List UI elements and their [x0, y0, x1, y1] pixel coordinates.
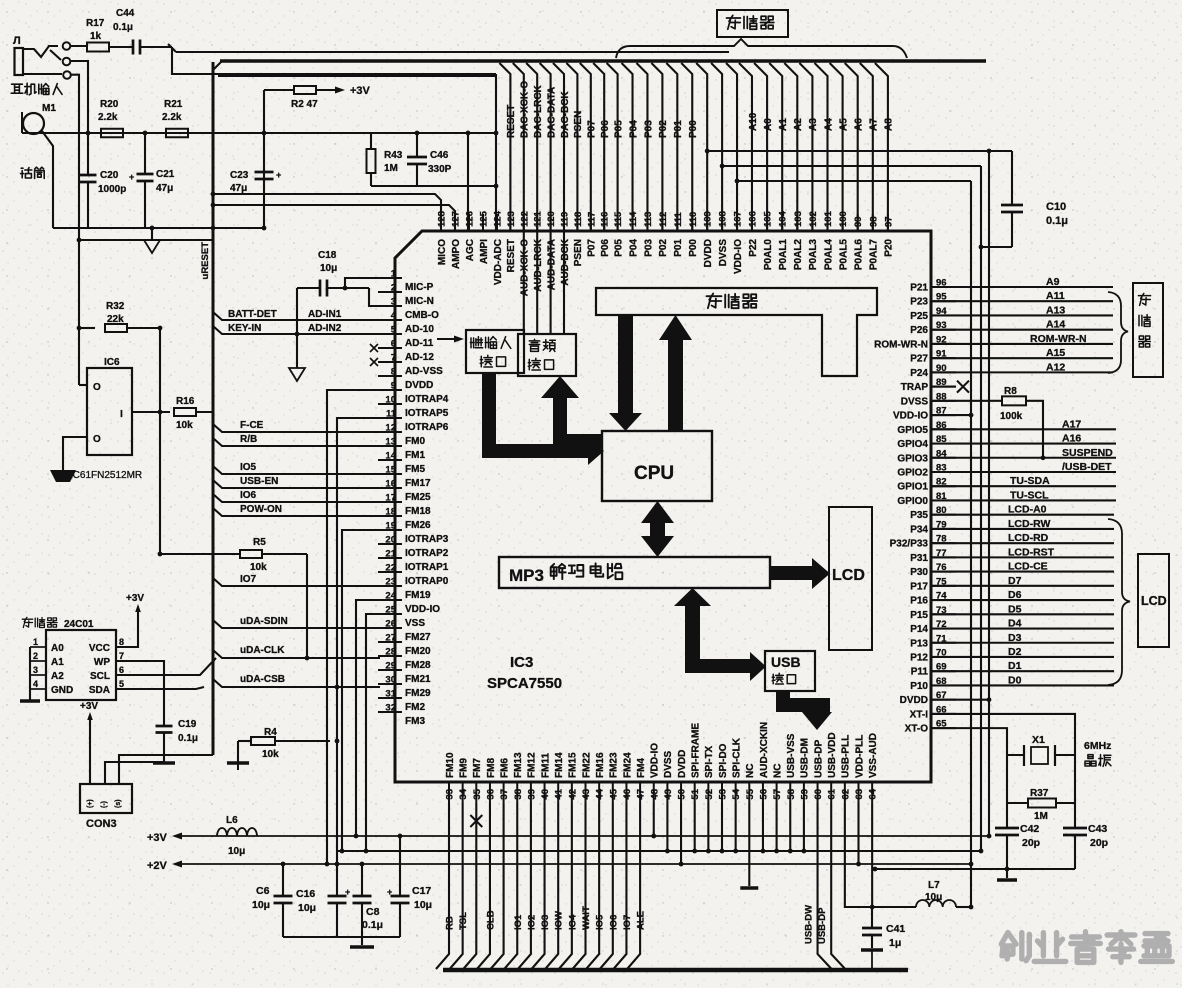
IC3 bottom pin stubs 33-64: [449, 782, 872, 803]
svg-text:D0: D0: [1008, 674, 1022, 686]
svg-text:50: 50: [677, 789, 688, 800]
svg-text:C44: C44: [116, 8, 135, 19]
XT-O row to crystal left: [931, 728, 1007, 755]
svg-text:(s): (s): [115, 799, 122, 808]
svg-text:46: 46: [622, 789, 633, 800]
svg-text:A2: A2: [793, 118, 804, 131]
svg-text:IO7: IO7: [240, 574, 257, 585]
svg-text:R2 47: R2 47: [291, 99, 318, 110]
thick elbow USB box to USB pins: [776, 691, 790, 712]
svg-text:1M: 1M: [384, 163, 398, 174]
wire IO7 row pin23: [213, 578, 380, 586]
wire AGC pin column: [467, 133, 469, 231]
svg-text:KEY-IN: KEY-IN: [228, 323, 261, 334]
svg-text:AD-10: AD-10: [405, 324, 434, 335]
AD-11 arrow into key-input box: [437, 338, 458, 340]
wire mic to VDD-ADC pin column: [495, 74, 497, 231]
svg-text:VDD-IO: VDD-IO: [650, 743, 661, 778]
svg-text:TU-SCL: TU-SCL: [1010, 489, 1049, 501]
svg-text:IOTRAP0: IOTRAP0: [405, 576, 449, 587]
svg-text:MIC-P: MIC-P: [405, 282, 434, 293]
svg-text:17: 17: [385, 493, 396, 504]
svg-text:P17: P17: [910, 581, 928, 592]
fan wires top pins 106-97 (memory address bus): [739, 63, 888, 231]
svg-text:CLB: CLB: [485, 910, 496, 930]
svg-text:100k: 100k: [1000, 411, 1023, 422]
svg-text:9: 9: [391, 381, 396, 392]
svg-text:VDD-IO: VDD-IO: [733, 239, 744, 274]
svg-text:30: 30: [385, 675, 396, 686]
mic lower lead to ground: [42, 131, 53, 228]
resistor R17 1k: [70, 45, 87, 47]
svg-text:P14: P14: [910, 624, 928, 635]
svg-text:4: 4: [391, 311, 397, 322]
svg-text:FM1: FM1: [405, 450, 425, 461]
svg-text:P16: P16: [910, 596, 928, 607]
wire uDA-SDIN row pin26: [213, 620, 380, 628]
svg-text:58: 58: [786, 789, 797, 800]
IC3 top pin names: [437, 238, 895, 296]
svg-text:P0AL0: P0AL0: [763, 239, 774, 271]
svg-text:10k: 10k: [250, 562, 267, 573]
svg-text:0.1μ: 0.1μ: [362, 919, 383, 931]
bottom thick bus: [443, 968, 908, 973]
svg-text:NC: NC: [745, 764, 756, 778]
bus corner diagonal: [213, 62, 221, 70]
IC3 right pin numbers 96-65: [936, 278, 947, 730]
resistor R4 10k: [238, 740, 252, 742]
svg-text:FM15: FM15: [568, 752, 579, 778]
VSS-AUD wire to C41 node: [871, 803, 873, 907]
svg-text:A0: A0: [763, 118, 774, 131]
svg-text:CON3: CON3: [86, 818, 117, 830]
svg-text:1: 1: [391, 269, 397, 280]
wire uDA-CLK row pin28: [213, 650, 380, 658]
capacitor C16 10u: [328, 895, 347, 898]
svg-text:P25: P25: [910, 311, 928, 322]
left long column pin19: [342, 530, 380, 851]
thick double arrow CPU-MP3: [650, 520, 665, 540]
wire USB-EN row pin16: [213, 480, 380, 488]
svg-text:C23: C23: [230, 170, 249, 181]
IC3 left pin numbers 1-32: [385, 269, 396, 714]
+3V supply rail: [178, 835, 989, 837]
svg-text:5: 5: [119, 679, 124, 689]
svg-text:42: 42: [567, 789, 578, 800]
R5 column down to uDA-CLK: [306, 554, 308, 658]
svg-text:SPI-TX: SPI-TX: [704, 745, 715, 778]
thick arrow memory-to-CPU (down): [618, 314, 633, 415]
crystal left vertical: [1006, 755, 1008, 828]
svg-text:126: 126: [465, 211, 476, 227]
internal block: LCD box: [829, 507, 872, 650]
svg-text:SPCA7550: SPCA7550: [487, 675, 562, 692]
svg-text:25: 25: [385, 605, 396, 616]
svg-text:POW-ON: POW-ON: [240, 504, 282, 515]
resistor R32 22k: [79, 327, 95, 329]
analog ground row top-left: [53, 227, 264, 229]
svg-text:DVSS: DVSS: [718, 239, 729, 267]
svg-text:P0AL2: P0AL2: [793, 239, 804, 271]
svg-text:IO3: IO3: [540, 915, 551, 930]
svg-text:VDD-IO: VDD-IO: [405, 604, 440, 615]
svg-text:32: 32: [385, 703, 396, 714]
EEPROM 24C01: [46, 630, 116, 700]
svg-text:27: 27: [385, 633, 396, 644]
svg-text:A12: A12: [1046, 361, 1065, 373]
internal block: USB interface box: [765, 651, 815, 691]
svg-text:+2V: +2V: [147, 860, 168, 872]
LCD signal rows: [931, 504, 1114, 687]
svg-text:R17: R17: [86, 18, 105, 29]
svg-text:R4: R4: [264, 727, 277, 738]
connector CON3: [80, 784, 132, 813]
IC3 left pin stubs 1-32: [378, 278, 402, 712]
C42 ground: [1005, 867, 1010, 872]
capacitor C19 0.1u: [156, 725, 173, 728]
svg-text:P0AL3: P0AL3: [808, 239, 819, 271]
svg-text:IO6: IO6: [240, 490, 257, 501]
svg-text:P04: P04: [628, 120, 639, 138]
svg-text:USB-DW: USB-DW: [804, 905, 815, 944]
svg-text:C16: C16: [296, 888, 315, 900]
capacitor C6 10u: [282, 864, 284, 896]
svg-text:P22: P22: [748, 239, 759, 257]
svg-text:124: 124: [493, 210, 504, 227]
svg-text:47μ: 47μ: [156, 183, 173, 194]
right vertical DVSS rail: [980, 166, 982, 851]
IC6 top O pin wire: [79, 384, 87, 386]
svg-text:6: 6: [391, 339, 396, 350]
power rail DVSS to right: [722, 165, 981, 167]
wire POW-ON row pin18: [213, 508, 380, 516]
svg-text:USB: USB: [771, 654, 801, 670]
svg-text:P01: P01: [673, 239, 684, 257]
svg-text:O: O: [93, 434, 101, 445]
svg-text:LCD: LCD: [1141, 594, 1167, 608]
svg-text:AD-12: AD-12: [405, 352, 434, 363]
svg-text:2.2k: 2.2k: [162, 112, 182, 123]
svg-text:34: 34: [458, 788, 469, 799]
svg-text:DVDD: DVDD: [703, 239, 714, 267]
svg-text:FM6: FM6: [499, 758, 510, 778]
svg-text:0.1μ: 0.1μ: [1046, 215, 1068, 227]
internal block: memory bar (cun-chu-qi): [596, 288, 877, 376]
svg-text:10μ: 10μ: [252, 899, 270, 911]
svg-text:DAC-LRCK: DAC-LRCK: [533, 84, 544, 138]
microphone M1: [23, 113, 44, 134]
resistor R5 10k: [160, 553, 240, 555]
svg-text:PSEN: PSEN: [573, 111, 584, 138]
svg-text:FM14: FM14: [554, 752, 565, 778]
svg-text:A5: A5: [838, 118, 849, 131]
svg-text:L6: L6: [226, 815, 238, 826]
svg-text:D6: D6: [1008, 589, 1022, 601]
capacitor C23 47u: [255, 171, 274, 174]
svg-text:LCD-A0: LCD-A0: [1008, 504, 1047, 516]
svg-text:FM27: FM27: [405, 632, 431, 643]
svg-text:16: 16: [385, 479, 396, 490]
svg-text:IO5: IO5: [595, 914, 606, 930]
svg-text:4: 4: [33, 679, 38, 689]
thick arrow CPU to audio interface: [553, 434, 567, 448]
svg-text:15: 15: [385, 465, 396, 476]
svg-text:39: 39: [526, 789, 537, 800]
svg-text:IO7: IO7: [622, 915, 633, 930]
CON3 pin2 wire to C19 ground row: [105, 762, 164, 784]
svg-text:DVSS: DVSS: [663, 750, 674, 778]
svg-text:XT-I: XT-I: [910, 709, 929, 720]
svg-text:USB-DM: USB-DM: [800, 738, 811, 778]
top bus thick line: [220, 59, 986, 62]
svg-text:P02: P02: [658, 239, 669, 257]
svg-text:D4: D4: [1008, 618, 1022, 630]
svg-text:P00: P00: [688, 120, 699, 138]
svg-text:P0AL4: P0AL4: [823, 239, 834, 271]
svg-text:P26: P26: [910, 325, 928, 336]
svg-text:A2: A2: [51, 671, 64, 682]
24C01 SDA wire joins uDA-CSB: [116, 687, 204, 689]
watermark: [1001, 932, 1172, 963]
crystal X1 6MHz: [1007, 754, 1024, 756]
CON3 pin3 wire to trunk bottom: [119, 755, 213, 784]
svg-text:IO6: IO6: [608, 915, 619, 930]
svg-text:57: 57: [772, 789, 783, 800]
svg-text:60: 60: [813, 789, 824, 800]
svg-text:13: 13: [385, 437, 396, 448]
bottom power pin terminations: [653, 803, 655, 836]
svg-text:WAIT: WAIT: [581, 906, 592, 930]
svg-text:DVDD: DVDD: [677, 750, 688, 778]
svg-text:TRAP: TRAP: [901, 382, 929, 393]
svg-text:40: 40: [540, 789, 551, 800]
svg-text:2.2k: 2.2k: [98, 112, 118, 123]
svg-text:41: 41: [554, 788, 565, 799]
svg-text:IO4: IO4: [567, 914, 578, 930]
svg-text:uDA-SDIN: uDA-SDIN: [240, 616, 288, 627]
svg-text:P27: P27: [910, 354, 928, 365]
ground arrow under mic row: [151, 228, 153, 240]
svg-text:C43: C43: [1088, 823, 1107, 835]
GPIO rows with net names: [931, 418, 1116, 501]
svg-text:MIC-N: MIC-N: [405, 296, 434, 307]
IC6 output I pin wire / R16 10k: [132, 411, 170, 413]
wire KEY-IN / AD-IN2 row pin5: [213, 326, 380, 334]
svg-text:D2: D2: [1008, 646, 1022, 658]
svg-text:59: 59: [799, 789, 810, 800]
wire IO6 row pin17: [213, 494, 380, 502]
svg-text:P00: P00: [688, 239, 699, 257]
svg-text:P21: P21: [910, 283, 928, 294]
svg-text:P31: P31: [910, 553, 928, 564]
svg-text:44: 44: [595, 788, 606, 799]
svg-text:6: 6: [119, 665, 124, 675]
capacitor C17 10u: [399, 836, 401, 896]
svg-text:D1: D1: [1008, 660, 1022, 672]
svg-text:330P: 330P: [428, 164, 452, 175]
svg-text:AGC: AGC: [465, 239, 476, 261]
left long column pin9: [327, 390, 380, 864]
mic signal row: [22, 132, 496, 134]
bottom pin wires to bus: [436, 803, 640, 969]
svg-text:GPIO3: GPIO3: [897, 453, 928, 464]
svg-text:56: 56: [758, 789, 769, 800]
svg-text:23: 23: [385, 577, 396, 588]
svg-text:61: 61: [827, 788, 838, 799]
svg-text:IOW: IOW: [554, 911, 565, 930]
svg-text:LCD-RD: LCD-RD: [1008, 532, 1049, 544]
DVDD row 67: [931, 699, 989, 701]
svg-text:DVSS: DVSS: [901, 396, 929, 407]
svg-text:C42: C42: [1020, 823, 1039, 835]
svg-text:FM5: FM5: [405, 464, 425, 475]
svg-text:19: 19: [385, 521, 396, 532]
svg-text:LCD-RW: LCD-RW: [1008, 518, 1050, 530]
svg-text:0.1μ: 0.1μ: [178, 733, 198, 744]
svg-text:LCD-CE: LCD-CE: [1008, 561, 1048, 573]
svg-text:5: 5: [391, 325, 397, 336]
svg-text:M1: M1: [42, 103, 56, 114]
svg-text:FM25: FM25: [405, 492, 431, 503]
svg-text:P34: P34: [910, 524, 928, 535]
svg-text:A14: A14: [1046, 319, 1065, 331]
capacitor C43 20p: [1063, 827, 1087, 830]
svg-text:FM10: FM10: [445, 752, 456, 778]
wires P21-P24 to memory: [931, 287, 1113, 372]
R43 C46 AGC network box: [371, 185, 496, 187]
svg-text:1: 1: [33, 637, 38, 647]
svg-text:+: +: [276, 170, 281, 180]
memory address net labels: [1030, 276, 1087, 373]
svg-text:45: 45: [608, 788, 619, 799]
external LCD box: [1138, 554, 1169, 647]
LCD data bundle brace: [1108, 519, 1130, 685]
svg-text:8: 8: [391, 367, 396, 378]
svg-text:+3V: +3V: [147, 832, 168, 844]
capacitor C18 10u: [297, 287, 320, 289]
svg-text:GPIO5: GPIO5: [897, 425, 928, 436]
bottom bus net labels: [445, 906, 647, 930]
svg-text:IOTRAP2: IOTRAP2: [405, 548, 449, 559]
svg-text:R21: R21: [164, 99, 183, 110]
svg-text:AMPO: AMPO: [451, 239, 462, 269]
svg-text:R16: R16: [176, 396, 195, 407]
svg-text:MP3: MP3: [509, 566, 544, 585]
resistor R21 2.2k: [166, 129, 188, 138]
svg-text:DAC-DATA: DAC-DATA: [546, 87, 557, 138]
USB-DM USB-DP wires to bus: [818, 803, 832, 969]
capacitor C42 20p: [995, 827, 1019, 830]
svg-text:A10: A10: [748, 112, 759, 131]
svg-text:C21: C21: [156, 169, 175, 180]
left long column pin24 VDD-IO: [356, 600, 380, 836]
svg-text:GPIO0: GPIO0: [897, 496, 928, 507]
svg-text:P23: P23: [910, 297, 928, 308]
C18 ground leg: [296, 288, 298, 368]
svg-text:D5: D5: [1008, 603, 1022, 615]
capacitor C8 0.1u: [361, 864, 363, 896]
svg-text:A8: A8: [884, 118, 895, 131]
svg-text:NC: NC: [772, 764, 783, 778]
svg-text:USB-PLL: USB-PLL: [841, 735, 852, 778]
svg-text:A3: A3: [808, 118, 819, 131]
svg-text:1000p: 1000p: [98, 184, 126, 195]
svg-text:SPI-DO: SPI-DO: [718, 743, 729, 778]
svg-text:14: 14: [385, 451, 396, 462]
svg-text:P07: P07: [587, 239, 598, 257]
svg-text:DVDD: DVDD: [405, 380, 433, 391]
capacitor C21 47u: [144, 133, 146, 174]
svg-text:2: 2: [391, 283, 396, 294]
svg-text:49: 49: [663, 789, 674, 800]
IC3 right pin stubs 96-65: [931, 287, 956, 728]
wire R/B row pin13: [213, 438, 380, 446]
svg-text:11: 11: [386, 409, 397, 420]
svg-text:10: 10: [385, 395, 396, 406]
svg-text:VDD-PLL: VDD-PLL: [854, 735, 865, 778]
svg-text:P20: P20: [884, 239, 895, 257]
crystal ground rail: [875, 868, 1075, 870]
svg-text:10μ: 10μ: [925, 892, 942, 903]
svg-text:FM17: FM17: [405, 478, 431, 489]
svg-text:FM8: FM8: [486, 758, 497, 778]
R4 ground: [237, 741, 239, 762]
internal block: key-input interface box: [466, 330, 524, 373]
jack sleeve contact wire down: [70, 75, 79, 385]
IC U-IC3 SPCA7550 outline: [395, 231, 931, 782]
svg-text:22: 22: [385, 563, 396, 574]
svg-text:L7: L7: [928, 880, 940, 891]
wire F-CE row pin12: [213, 424, 380, 432]
svg-text:IOTRAP5: IOTRAP5: [405, 408, 449, 419]
svg-text:USB-VSS: USB-VSS: [786, 733, 797, 778]
svg-text:AMPI: AMPI: [479, 239, 490, 264]
svg-text:20: 20: [385, 535, 396, 546]
svg-text:P24: P24: [910, 368, 928, 379]
left long column pin25 VSS: [366, 614, 380, 851]
svg-text:ALE: ALE: [636, 911, 647, 930]
DVSS row with resistor R8 100k: [931, 400, 1002, 402]
svg-text:FM3: FM3: [405, 716, 425, 727]
svg-text:33: 33: [445, 789, 456, 800]
svg-text:IC3: IC3: [510, 654, 533, 671]
svg-text:R/B: R/B: [240, 434, 257, 445]
pin35 no-connect X: [470, 815, 482, 827]
svg-text:USB-EN: USB-EN: [240, 476, 278, 487]
wire C44 to upper bus diagonal: [168, 44, 176, 52]
internal block: MP3 decoder box: [499, 557, 770, 588]
svg-text:10μ: 10μ: [320, 263, 337, 274]
CON3 pin1 wire to +3V: [89, 718, 91, 784]
svg-text:P13: P13: [910, 638, 928, 649]
svg-text:R37: R37: [1030, 788, 1049, 799]
jack spring contacts: [23, 46, 58, 57]
svg-text:FM0: FM0: [405, 436, 425, 447]
capacitor C20 1000p: [80, 174, 97, 177]
svg-text:18: 18: [385, 507, 396, 518]
svg-text:AD-IN2: AD-IN2: [308, 323, 342, 334]
power rail VDD-IO to right: [737, 180, 971, 182]
svg-text:X1: X1: [1032, 734, 1045, 746]
svg-text:IC6: IC6: [104, 357, 120, 368]
svg-text:LCD: LCD: [832, 567, 865, 584]
IC3 bottom pin names: [445, 722, 879, 778]
top bus upper line: [176, 51, 729, 53]
capacitor C10 0.1u: [1011, 151, 1013, 205]
svg-text:uDA-CSB: uDA-CSB: [240, 674, 285, 685]
svg-text:43: 43: [581, 789, 592, 800]
svg-text:IOTRAP3: IOTRAP3: [405, 534, 449, 545]
